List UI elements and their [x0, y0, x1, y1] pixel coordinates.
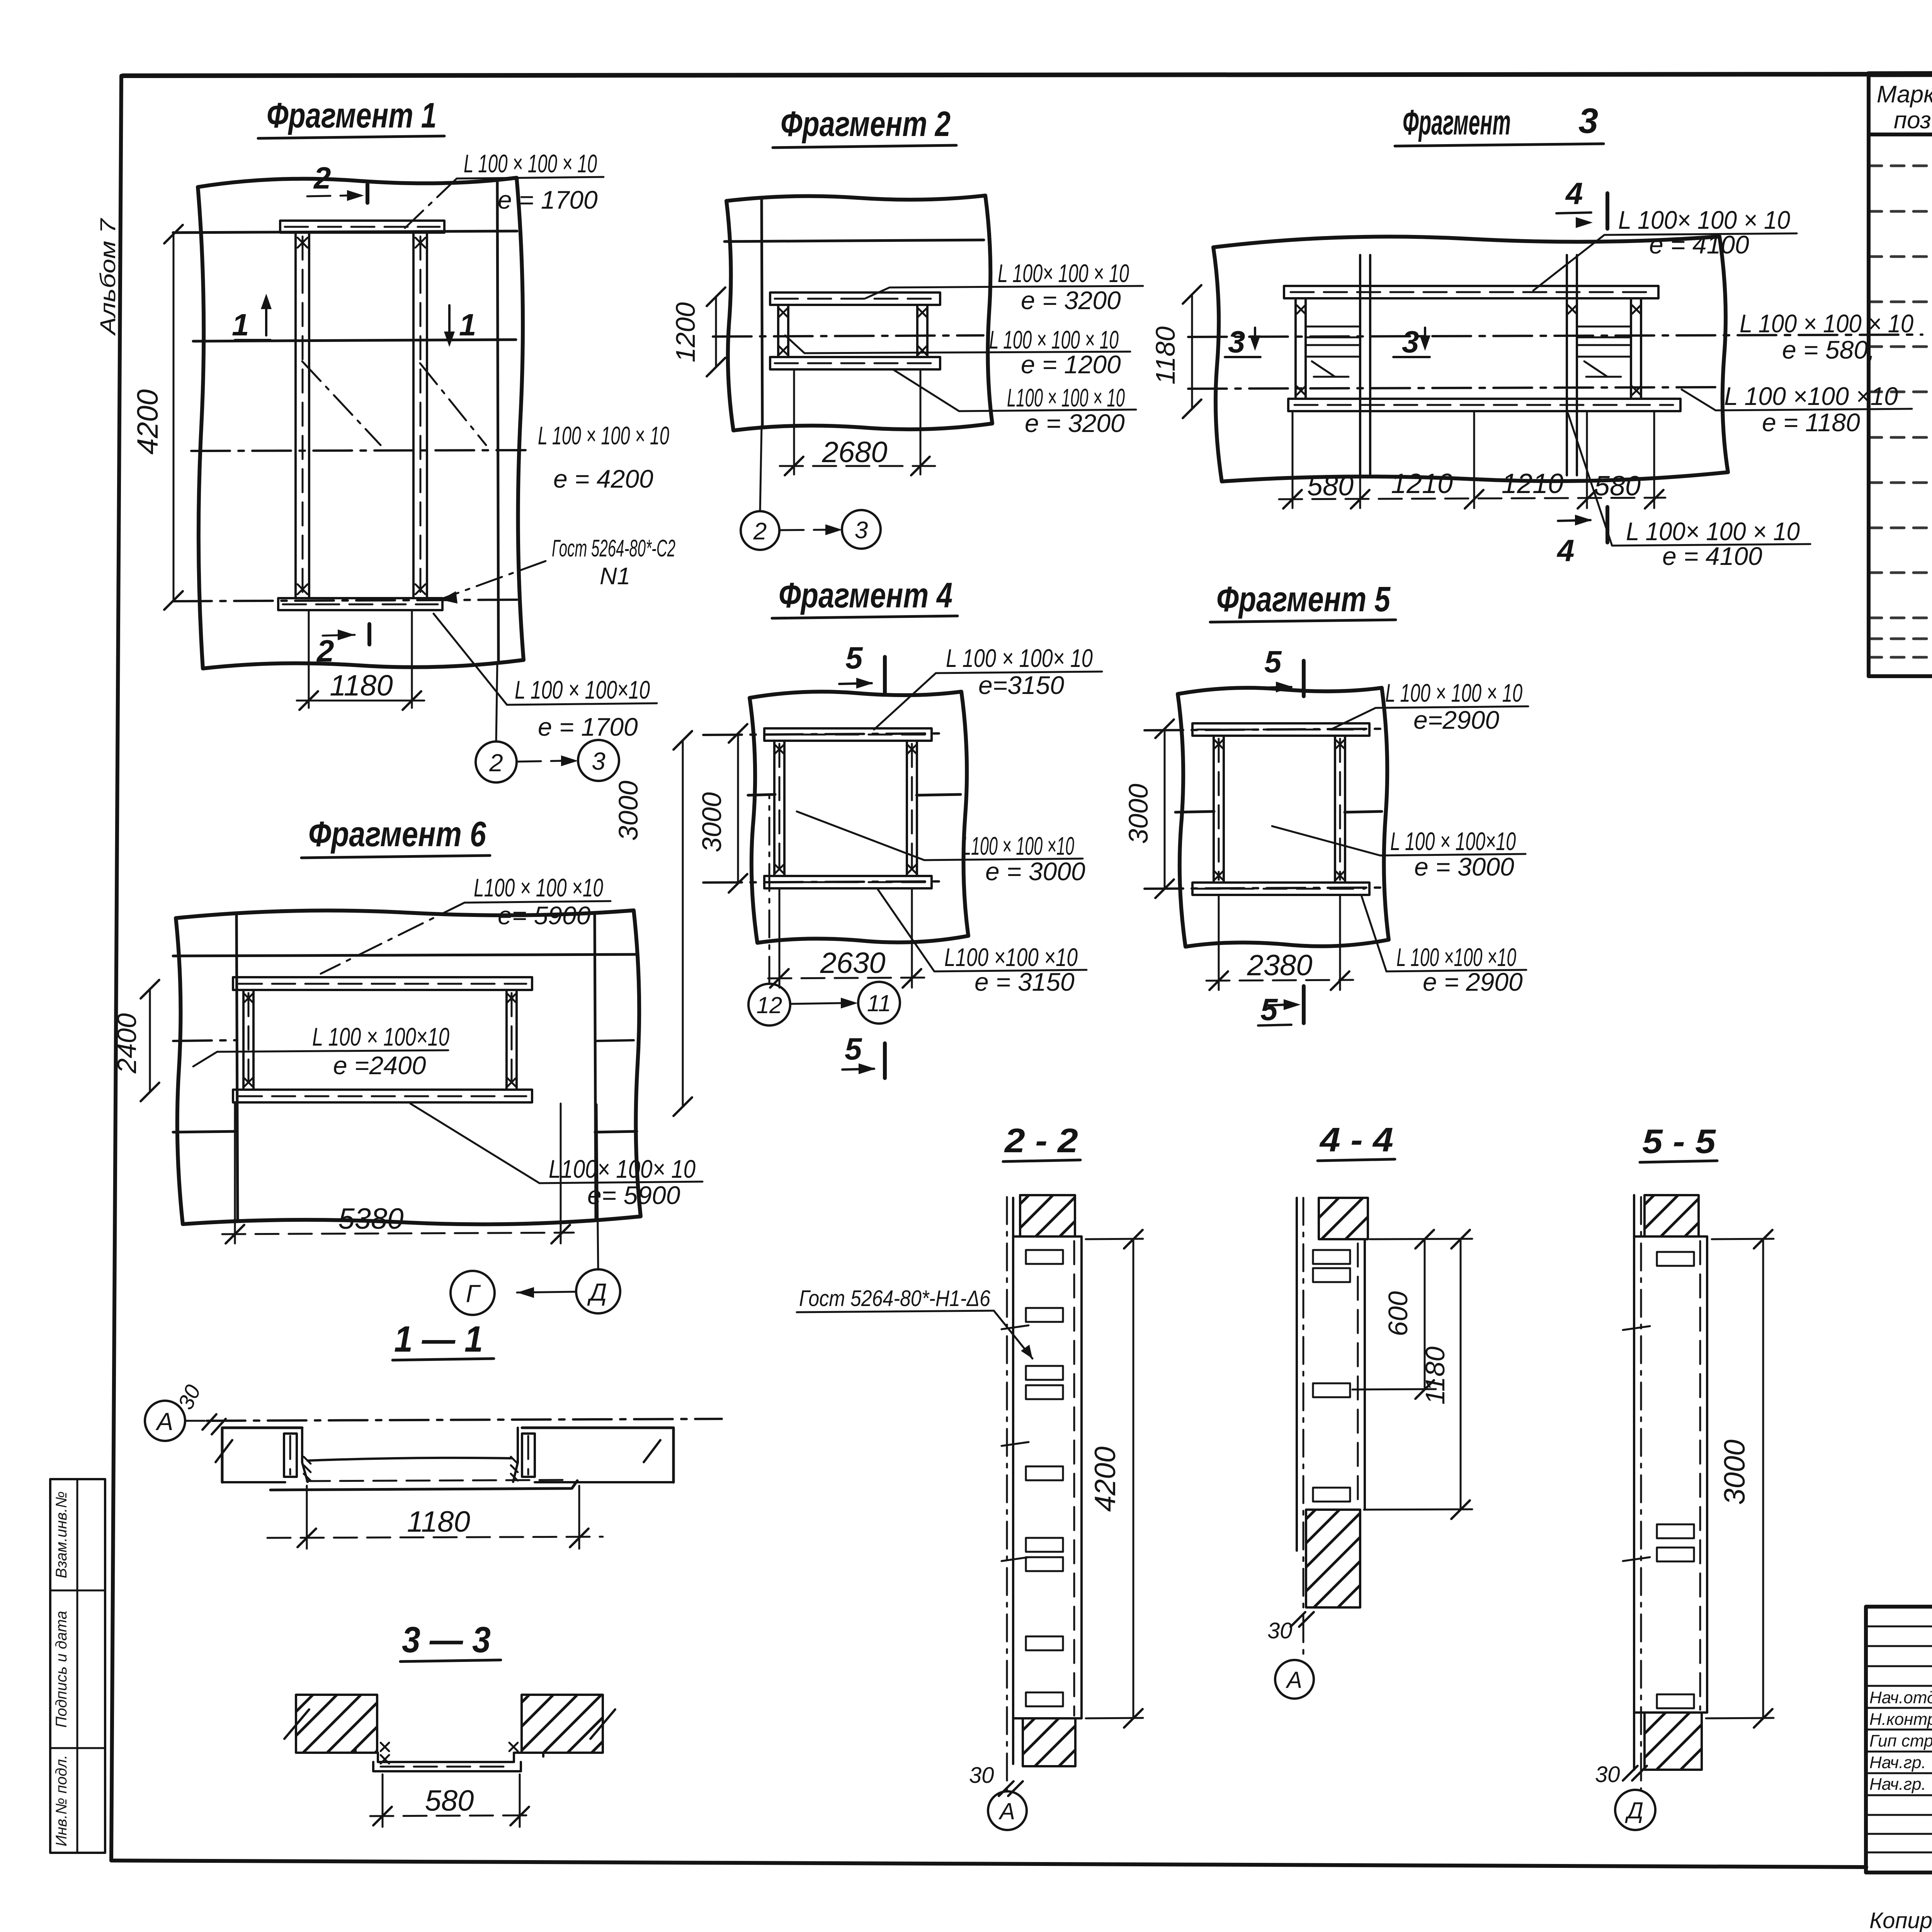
section 5-5 angle rungs — [1657, 1252, 1694, 1708]
section 1-1 recess surface — [308, 1458, 511, 1461]
section 5-5 panel edge right — [1706, 1236, 1708, 1713]
svg-text:3: 3 — [855, 517, 868, 544]
fragment 1 left vertical angle — [294, 233, 297, 598]
svg-text:2: 2 — [753, 518, 767, 545]
section 1-1 left angle section — [284, 1434, 297, 1477]
section 2-2 angle rungs — [1026, 1250, 1063, 1706]
svg-text:e = 580,: e = 580, — [1782, 335, 1875, 364]
section 2-2 bottom wall block — [1023, 1718, 1075, 1766]
section 2-2 — [797, 1121, 1143, 1830]
fragment 3 centre axis upper — [1188, 335, 1922, 337]
svg-text:Альбом 7: Альбом 7 — [95, 218, 120, 336]
section 5-5 block boundaries — [1634, 1235, 1707, 1238]
svg-text:5: 5 — [1264, 645, 1282, 679]
svg-text:e =2400: e =2400 — [333, 1051, 426, 1080]
section 2-2 dimension 4200 — [1086, 1239, 1143, 1239]
svg-text:Копир. ЛСлд: Копир. ЛСлд — [1869, 1908, 1932, 1932]
svg-text:30: 30 — [1267, 1618, 1293, 1643]
svg-text:e = 4100: e = 4100 — [1649, 230, 1749, 259]
svg-text:580: 580 — [1307, 471, 1354, 502]
signature texts — [1869, 1687, 1932, 1794]
fragment 3 dimensions 580-1210-1210-580 — [1279, 413, 1665, 508]
fragment 3 top angle bar — [1284, 286, 1658, 298]
section 3-3 dimension 580 — [382, 1774, 384, 1827]
svg-text:L 100 × 100×10: L 100 × 100×10 — [312, 1022, 449, 1051]
svg-text:2 - 2: 2 - 2 — [1004, 1121, 1078, 1160]
section 4-4 panel edge left — [1296, 1198, 1298, 1551]
fragment 5 — [1123, 580, 1528, 1027]
fragment 2 right vertical angle — [916, 305, 918, 357]
svg-text:e = 3150: e = 3150 — [975, 968, 1075, 996]
svg-text:Марка,: Марка, — [1877, 81, 1932, 108]
svg-text:3 — 3: 3 — 3 — [402, 1619, 491, 1660]
svg-text:e = 3200: e = 3200 — [1021, 286, 1121, 315]
svg-text:5 - 5: 5 - 5 — [1642, 1122, 1716, 1160]
svg-text:Нач.отд.: Нач.отд. — [1869, 1688, 1932, 1707]
svg-text:L100 ×100 ×10: L100 ×100 ×10 — [944, 943, 1078, 971]
section 5-5 bottom wall block — [1645, 1713, 1702, 1770]
fragment 1 right vertical angle — [412, 233, 415, 598]
section 2-2 panel joint breaks — [1002, 1325, 1029, 1561]
svg-text:2680: 2680 — [821, 436, 887, 469]
section 2-2 top wall block — [1020, 1195, 1075, 1236]
fragment 2 panel outline — [726, 196, 992, 430]
fragment 1 top angle bar — [280, 221, 444, 233]
fragment 3 centre axis lower — [1188, 387, 1721, 389]
svg-text:L 100 ×100 ×10: L 100 ×100 ×10 — [1396, 943, 1516, 971]
svg-text:e = 3000: e = 3000 — [1414, 852, 1514, 881]
svg-text:2: 2 — [489, 749, 503, 777]
section 2-2 centre axis — [1006, 1197, 1008, 1791]
svg-text:Фрагмент 5: Фрагмент 5 — [1216, 580, 1391, 619]
svg-text:2: 2 — [313, 161, 331, 195]
fragment 1 panel joint lines — [173, 231, 517, 233]
svg-text:А: А — [155, 1408, 173, 1435]
frame left border — [111, 76, 121, 1861]
fragment 3 vertical angle c / joint — [1566, 255, 1568, 475]
section 3-3 right wall block — [522, 1695, 603, 1753]
svg-text:Д: Д — [587, 1278, 607, 1306]
svg-text:1210: 1210 — [1391, 468, 1453, 499]
stray dimension 3000 right of fragment 6 — [682, 740, 684, 1107]
fragment 1 — [131, 96, 675, 782]
fragment 5 panel joint lines — [1175, 811, 1214, 812]
fragment 4 panel outline — [750, 692, 968, 943]
svg-text:e = 3000: e = 3000 — [985, 857, 1085, 886]
fragment 5 dimension 2380 — [1218, 896, 1220, 990]
fragment 5 axis top — [1145, 729, 1385, 730]
fragment 2 — [670, 104, 1143, 550]
fragment 1 bottom angle bar — [278, 598, 442, 610]
svg-text:1: 1 — [459, 308, 476, 342]
fragment 2 left vertical angle — [777, 305, 779, 357]
fragment 1 panel outline — [198, 178, 524, 668]
svg-text:L 100 × 100 × 10: L 100 × 100 × 10 — [1740, 309, 1913, 338]
section 1-1 bottom flange dashed — [307, 1480, 571, 1481]
fragment 4 axis bottom — [703, 881, 947, 883]
svg-text:5: 5 — [1260, 992, 1278, 1027]
svg-text:580: 580 — [425, 1784, 474, 1817]
section 3-3 angle between — [355, 1749, 543, 1762]
fragment 6 grid circles Г-Д — [597, 1104, 598, 1270]
svg-text:L100 × 100 × 10: L100 × 100 × 10 — [1007, 383, 1125, 412]
svg-text:L 100 × 100 × 10: L 100 × 100 × 10 — [1385, 679, 1522, 707]
section 1-1 bottom line — [270, 1481, 577, 1490]
fragment 4 right vertical angle — [906, 741, 908, 876]
fragment 2 grid circles 2-3 — [760, 426, 762, 511]
frame bottom border — [111, 1861, 1866, 1867]
fragment 2 bottom angle bar — [770, 357, 940, 369]
fragment 2 dimension 1200 — [715, 297, 717, 367]
svg-text:N1: N1 — [600, 563, 630, 590]
svg-text:Нач.гр.: Нач.гр. — [1869, 1753, 1926, 1772]
fragment 6 panel outline — [176, 910, 641, 1224]
section 4-4 dimension 600 — [1370, 1239, 1472, 1239]
fragment 1 centre axis — [191, 450, 526, 451]
svg-text:L100 × 100 ×10: L100 × 100 ×10 — [962, 832, 1074, 860]
svg-text:Д: Д — [1625, 1798, 1643, 1823]
section 1-1 dimension 1180 — [306, 1486, 308, 1549]
svg-text:30: 30 — [969, 1763, 994, 1788]
svg-text:600: 600 — [1383, 1291, 1413, 1337]
section 4-4 — [1267, 1121, 1472, 1699]
section 1-1 left panel — [222, 1428, 302, 1482]
specification table top right — [1869, 73, 1932, 676]
svg-text:Фрагмент 1: Фрагмент 1 — [267, 96, 437, 135]
svg-text:L100 × 100 ×10: L100 × 100 ×10 — [474, 873, 603, 902]
section 5-5 top wall block — [1645, 1195, 1699, 1236]
svg-text:Фрагмент 4: Фрагмент 4 — [779, 576, 952, 615]
section 1-1 axis circle A — [145, 1401, 185, 1441]
svg-text:e= 5900: e= 5900 — [587, 1181, 680, 1209]
section 4-4 centre axis — [1303, 1198, 1304, 1658]
signature row lines — [1866, 1626, 1932, 1852]
section 5-5 panel joint breaks — [1623, 1326, 1650, 1561]
fragment 5 dimension 3000 — [1164, 729, 1166, 889]
svg-text:e = 1200: e = 1200 — [1021, 350, 1121, 379]
svg-text:Н.контр: Н.контр — [1869, 1710, 1932, 1729]
svg-text:L 100 × 100×10: L 100 × 100×10 — [1390, 827, 1516, 855]
fragment 4 left vertical angle — [773, 741, 776, 876]
fragment 4 weld marks — [775, 745, 916, 873]
section 5-5 centre axis — [1640, 1197, 1642, 1789]
svg-text:1210: 1210 — [1502, 468, 1563, 499]
svg-text:3000: 3000 — [697, 792, 727, 852]
svg-text:L 100× 100 × 10: L 100× 100 × 10 — [998, 259, 1129, 287]
svg-text:Взам.инв.№: Взам.инв.№ — [53, 1491, 70, 1578]
fragment 4 — [697, 576, 1102, 1078]
svg-text:e = 1700: e = 1700 — [498, 185, 598, 214]
svg-text:e=2900: e=2900 — [1413, 706, 1499, 734]
svg-text:3000: 3000 — [613, 781, 643, 841]
svg-text:L 100 × 100 × 10: L 100 × 100 × 10 — [538, 421, 669, 450]
fragment 1 dimension 1180 — [308, 611, 310, 708]
fragment 6 bottom angle bar — [233, 1090, 532, 1102]
section 4-4 axis circle A — [1275, 1660, 1314, 1699]
section 3-3 left wall block — [296, 1695, 377, 1753]
svg-text:А: А — [998, 1798, 1015, 1824]
svg-text:L 100 × 100×10: L 100 × 100×10 — [515, 675, 650, 704]
fragment 2 top angle bar — [770, 293, 940, 305]
fragment 5 panel outline — [1178, 688, 1389, 947]
fragment 3 — [1150, 101, 1922, 570]
svg-text:4 - 4: 4 - 4 — [1319, 1121, 1393, 1159]
fragment 2 panel joint lines — [724, 240, 984, 241]
fragment 3 sub bar right — [1577, 345, 1631, 357]
svg-text:L 100 × 100 × 10: L 100 × 100 × 10 — [989, 325, 1119, 354]
svg-text:L100× 100× 10: L100× 100× 10 — [549, 1155, 696, 1183]
svg-text:3000: 3000 — [1718, 1439, 1751, 1505]
section 3-3 weld marks — [381, 1743, 518, 1764]
svg-text:5: 5 — [845, 1032, 862, 1066]
svg-text:4: 4 — [1556, 533, 1575, 568]
section 5-5 dimension 3000 — [1712, 1239, 1774, 1239]
fragment 6 top angle bar — [233, 977, 532, 990]
section 4-4 dimension 1180 — [1364, 1509, 1472, 1510]
svg-text:поз.: поз. — [1894, 107, 1932, 134]
fragment 6 — [112, 731, 702, 1315]
svg-text:2: 2 — [316, 634, 334, 668]
section 2-2 panel edge left — [1012, 1198, 1014, 1764]
fragment 3 bottom angle bar — [1288, 399, 1680, 411]
fragment 5 right vertical angle — [1334, 736, 1336, 883]
fragment 3 vertical angle a — [1294, 298, 1297, 399]
svg-text:580: 580 — [1594, 471, 1641, 502]
svg-text:2380: 2380 — [1247, 949, 1312, 982]
fragment 6 dimension 2400 — [149, 989, 151, 1092]
svg-text:1180: 1180 — [330, 669, 393, 702]
svg-text:L 100 × 100× 10: L 100 × 100× 10 — [946, 644, 1093, 672]
svg-text:Фрагмент: Фрагмент — [1403, 103, 1511, 142]
section 4-4 top wall block — [1319, 1198, 1368, 1239]
fragment 3 sub bar left — [1306, 345, 1360, 357]
fragment 2 centre axis — [713, 335, 983, 337]
section 1-1 right angle section — [522, 1434, 535, 1477]
fragment 3 dimension 1180 left — [1191, 294, 1193, 409]
fragment 4 dimension 3000 — [737, 733, 739, 883]
svg-text:L 100 × 100 × 10: L 100 × 100 × 10 — [464, 149, 597, 178]
fragment 4 grid circles 12-11 — [769, 797, 770, 984]
fragment 5 bottom angle bar — [1192, 883, 1369, 895]
fragment 3 vertical angle b / joint — [1359, 255, 1361, 475]
svg-text:3: 3 — [1578, 101, 1598, 141]
section 2-2 block boundaries — [1013, 1235, 1082, 1238]
svg-text:e = 4100: e = 4100 — [1662, 542, 1762, 570]
svg-text:Нач.гр.: Нач.гр. — [1869, 1775, 1926, 1794]
title block — [1866, 1475, 1932, 1874]
svg-text:1 — 1: 1 — 1 — [394, 1319, 483, 1360]
svg-text:Инв.№ подл.: Инв.№ подл. — [53, 1755, 70, 1846]
svg-text:e= 5900: e= 5900 — [498, 901, 591, 930]
svg-text:1200: 1200 — [670, 302, 701, 362]
section 2-2 panel edge right — [1080, 1236, 1083, 1718]
svg-text:2400: 2400 — [112, 1013, 142, 1074]
svg-text:Подпись и дата: Подпись и дата — [53, 1611, 70, 1728]
section 2-2 axis circle A — [988, 1791, 1027, 1830]
fragment 4 panel joint lines — [748, 794, 775, 795]
svg-text:4: 4 — [1565, 176, 1583, 211]
svg-text:4200: 4200 — [1089, 1446, 1122, 1512]
fragment 1 grid circles 2-3 — [496, 663, 497, 742]
svg-text:3: 3 — [1228, 325, 1245, 359]
section 1-1 axis line — [207, 1419, 722, 1421]
fragment 4 bottom angle bar — [764, 876, 932, 888]
main title block frame — [1866, 1607, 1932, 1872]
svg-text:11: 11 — [867, 990, 891, 1016]
svg-text:Г: Г — [466, 1280, 481, 1308]
svg-text:1: 1 — [232, 308, 249, 342]
fragment 5 axis bottom — [1145, 888, 1385, 889]
svg-text:1180: 1180 — [1420, 1347, 1450, 1405]
svg-text:3: 3 — [1402, 325, 1419, 359]
svg-text:L 100× 100 × 10: L 100× 100 × 10 — [1618, 206, 1790, 234]
svg-text:Гост 5264-80*-Н1-Δ6: Гост 5264-80*-Н1-Δ6 — [799, 1286, 991, 1311]
section 4-4 angle rungs — [1313, 1250, 1350, 1502]
fragment 3 panel outline — [1213, 236, 1728, 481]
section 5-5 axis circle Д — [1615, 1790, 1655, 1830]
svg-text:2630: 2630 — [820, 947, 885, 980]
section 5-5 — [1595, 1122, 1774, 1830]
fragment 3 vertical angle d — [1630, 298, 1632, 399]
svg-text:5: 5 — [845, 641, 863, 675]
svg-text:e=3150: e=3150 — [978, 671, 1064, 699]
frame top border — [123, 73, 1932, 76]
fragment 2 weld marks — [779, 308, 927, 355]
fragment 5 weld marks — [1214, 740, 1344, 880]
svg-text:3000: 3000 — [1123, 784, 1153, 844]
svg-text:e = 4200: e = 4200 — [553, 464, 653, 493]
fragment 6 panel joint lines — [173, 954, 635, 956]
section 4-4 panel edge right — [1364, 1239, 1366, 1510]
fragment 6 dimension 5380 — [234, 1104, 236, 1243]
section 1-1 right panel — [522, 1428, 673, 1482]
fragment 3 weld marks — [1297, 305, 1641, 395]
svg-text:12: 12 — [757, 992, 782, 1018]
fragment 6 weld marks — [244, 994, 516, 1087]
svg-text:e = 3200: e = 3200 — [1025, 409, 1125, 437]
section 5-5 panel edge left — [1633, 1195, 1635, 1770]
svg-text:1180: 1180 — [1150, 327, 1180, 385]
fragment 2 dimension 2680 — [793, 371, 795, 474]
svg-text:5380: 5380 — [338, 1202, 403, 1235]
svg-text:L 100× 100 × 10: L 100× 100 × 10 — [1626, 517, 1800, 546]
svg-text:e = 1180: e = 1180 — [1762, 408, 1860, 437]
fragment 5 top angle bar — [1192, 723, 1369, 736]
fragment 5 left vertical angle — [1213, 736, 1215, 883]
fragment 6 right vertical angle — [505, 990, 508, 1090]
section 3-3 — [284, 1619, 615, 1827]
fragment 4 axis top — [703, 733, 947, 735]
left margin stamp table — [50, 1479, 105, 1853]
fragment 1 weld marks — [298, 238, 425, 594]
svg-text:1180: 1180 — [407, 1505, 470, 1538]
svg-text:Гип стр.: Гип стр. — [1869, 1731, 1932, 1750]
svg-text:3: 3 — [592, 747, 605, 775]
svg-text:Фрагмент 6: Фрагмент 6 — [308, 815, 486, 854]
svg-text:L 100 ×100 ×10: L 100 ×100 ×10 — [1724, 382, 1898, 410]
svg-text:4200: 4200 — [131, 389, 164, 454]
fragment 4 top angle bar — [764, 728, 932, 741]
svg-text:А: А — [1286, 1667, 1302, 1693]
svg-text:Фрагмент 2: Фрагмент 2 — [781, 104, 951, 144]
svg-text:30: 30 — [1595, 1762, 1620, 1787]
fragment 1 dimension 4200 — [173, 234, 175, 600]
svg-text:e = 1700: e = 1700 — [538, 713, 638, 741]
fragment 6 left vertical angle — [242, 990, 245, 1090]
svg-text:Гост 5264-80*-С2: Гост 5264-80*-С2 — [552, 535, 675, 562]
fragment 4 dimension 2630 — [779, 889, 781, 988]
section 4-4 bottom wall block — [1306, 1510, 1360, 1607]
section 1-1 — [145, 1319, 722, 1549]
svg-text:e = 2900: e = 2900 — [1423, 968, 1523, 996]
